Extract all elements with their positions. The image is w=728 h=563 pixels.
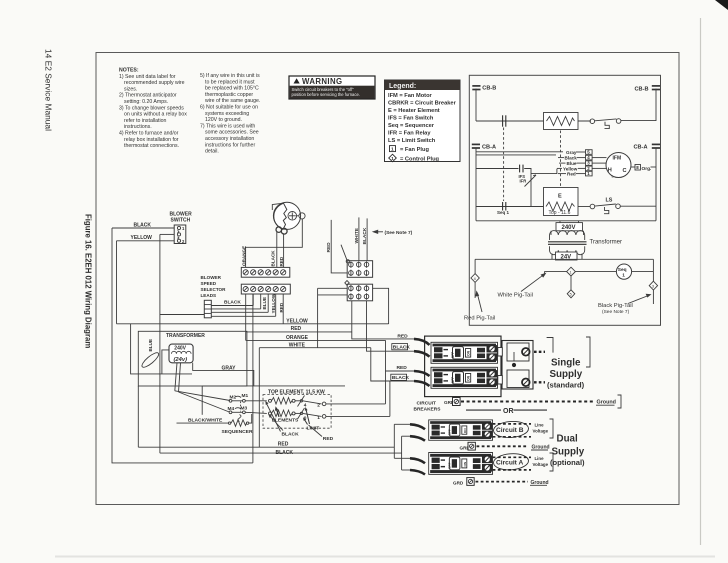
OR divider: [466, 409, 501, 411]
circuit breaker CBRKR 2: [431, 367, 498, 388]
wire2 gray feed: [476, 151, 563, 153]
svg-text:WARNING: WARNING: [302, 77, 342, 86]
svg-text:SPEED: SPEED: [201, 281, 217, 286]
svg-text:4: 4: [474, 277, 476, 281]
relay block upper: [347, 261, 372, 278]
svg-text:Top - 11.6: Top - 11.6: [549, 210, 571, 216]
svg-text:(24v): (24v): [174, 357, 188, 363]
legend box: [0, 0, 460, 163]
svg-text:RED: RED: [323, 436, 334, 442]
wire orange motor to strip: [246, 219, 303, 268]
legend control plug symbol: [389, 154, 397, 162]
wire vertical elem2: [389, 381, 391, 416]
dashed wire from capacitor down: [503, 128, 505, 202]
wire E to LS: [578, 206, 591, 208]
bracket single supply: [586, 337, 590, 367]
sequencer link dashed: [240, 402, 242, 412]
wire black bottom long: [160, 452, 402, 454]
selector lead connector: [204, 300, 211, 318]
svg-text:Blue: Blue: [567, 161, 577, 166]
svg-text:Org.: Org.: [642, 166, 652, 172]
svg-text:Ground: Ground: [597, 400, 616, 406]
svg-text:CIRCUIT: CIRCUIT: [417, 401, 437, 407]
wire 24V rail: [475, 258, 653, 260]
plug B and Org label: [635, 165, 651, 173]
wire orange drop from strip: [245, 294, 247, 341]
single supply side frame: [498, 341, 533, 390]
svg-text:Voltage: Voltage: [533, 462, 549, 467]
transformer secondary coil: [550, 246, 585, 254]
svg-text:(See Note 7): (See Note 7): [385, 230, 413, 236]
dashed line voltage A: [493, 456, 531, 458]
control plug diamond on lower block: [345, 281, 349, 286]
wire elem1 to limit contact: [295, 400, 300, 402]
svg-text:RED: RED: [278, 441, 289, 447]
strip drops to leads: [252, 294, 254, 306]
dual supply circuit breaker B: [429, 420, 493, 440]
wire black motor down: [276, 232, 278, 267]
svg-text:YELLOW: YELLOW: [131, 235, 153, 241]
fan plug marker on wire1 switch: [605, 122, 610, 129]
svg-text:BLACK: BLACK: [282, 432, 300, 438]
svg-text:NOTES: 1) See unit data label: NOTES: 1) See unit data label for recomm…: [0, 0, 188, 149]
svg-text:Black: Black: [565, 156, 578, 161]
svg-text:GRD: GRD: [453, 481, 464, 486]
svg-text:BREAKERS: BREAKERS: [414, 407, 442, 413]
svg-text:BLACK: BLACK: [393, 344, 411, 350]
circuit breaker CB-B left: [472, 85, 496, 91]
wire 24V secondary hot: [545, 272, 567, 275]
wire LS to right rail: [620, 205, 656, 207]
page edge scan line: [700, 18, 702, 545]
fan plug pin boxes 5..1: [586, 150, 593, 177]
terminal strip upper: [241, 267, 289, 277]
heater element E box: [544, 188, 579, 216]
svg-text:E: E: [558, 194, 562, 200]
svg-text:1: 1: [182, 226, 185, 231]
terminal strip lower: [241, 284, 290, 294]
svg-text:SELECTOR: SELECTOR: [201, 287, 227, 292]
faint bottom scan line: [55, 556, 715, 558]
wire to terminal 2: [303, 401, 322, 404]
svg-text:position before servicing the: position before servicing the furnace.: [292, 92, 360, 97]
corner scan artifact: [715, 0, 728, 10]
wire loop left of transformer: [131, 324, 192, 374]
control plug diamond 5: [567, 290, 575, 298]
svg-text:Circuit A: Circuit A: [496, 459, 523, 466]
svg-text:SEQUENCER: SEQUENCER: [222, 429, 253, 435]
wire stubs into 240V box: [559, 221, 561, 223]
svg-text:LS: LS: [606, 198, 613, 204]
transformer box: [138, 331, 247, 386]
wire yellow long: [117, 323, 389, 325]
circuit breaker CBRKR 1: [431, 342, 498, 363]
svg-text:Legend:: Legend:: [389, 83, 416, 90]
sequencer heater squiggle: [238, 415, 241, 422]
svg-text:M3: M3: [241, 405, 248, 411]
wire black to switch: [112, 227, 174, 229]
blower motor drawing: [272, 202, 305, 234]
wire black feed 2: [391, 374, 407, 380]
svg-text:Supply: Supply: [552, 447, 585, 458]
svg-text:(standard): (standard): [547, 381, 585, 390]
svg-text:IFR: IFR: [520, 179, 527, 184]
wire 24V lead 2: [179, 363, 181, 392]
blower switch box: [174, 225, 186, 244]
dashed stubs right of frame: [534, 351, 545, 353]
fan plug marker under LS: [604, 207, 609, 214]
svg-text:TOP ELEMENT, 11.5 KW: TOP ELEMENT, 11.5 KW: [268, 390, 325, 396]
svg-text:8: 8: [636, 165, 639, 170]
wire left pigtail drop: [474, 259, 476, 273]
svg-text:Seq 1: Seq 1: [497, 210, 510, 215]
wire right pigtail drop: [652, 259, 654, 281]
wire CB-B left down: [475, 89, 477, 122]
svg-text:1: 1: [391, 147, 394, 153]
wire red long: [246, 331, 352, 333]
wire feed diagonal M4: [179, 392, 230, 412]
svg-text:BLACK/WHITE: BLACK/WHITE: [188, 418, 223, 424]
wire to terminal 1: [303, 413, 322, 416]
svg-text:Line: Line: [535, 423, 545, 428]
wire yellow to switch: [117, 240, 175, 242]
wire lower block left to white drop: [318, 287, 348, 289]
svg-text:1: 1: [570, 271, 572, 275]
wire 24V lead 1: [175, 363, 177, 391]
svg-text:CB-B: CB-B: [482, 85, 496, 91]
capacitor IFS: [519, 165, 521, 173]
svg-text:IFM: IFM: [613, 156, 622, 162]
svg-text:White Pig-Tail: White Pig-Tail: [498, 293, 533, 299]
svg-text:RED: RED: [291, 326, 302, 332]
wire connector to switch vertical: [160, 314, 204, 316]
wire left vertical middle long: [159, 234, 161, 453]
wire resistor right up: [249, 414, 252, 423]
svg-text:2: 2: [317, 402, 320, 408]
wire yellow switch drop: [116, 241, 118, 324]
motor lead labels and fan plug pins: [563, 150, 578, 177]
svg-text:BLACK: BLACK: [271, 250, 276, 267]
svg-text:Line: Line: [535, 456, 545, 461]
dual supply circuit breaker A: [429, 453, 493, 475]
wire black feed 1: [392, 344, 408, 350]
svg-text:1: 1: [317, 415, 320, 421]
single supply enclosure: [425, 336, 501, 397]
wire gray: [193, 363, 254, 386]
wire red pigtail stub: [474, 282, 476, 298]
svg-text:ORANGE: ORANGE: [242, 246, 247, 266]
control plug diamond red pigtail: [471, 274, 479, 283]
dashed line voltage B: [493, 423, 531, 425]
selector lead wires: [211, 305, 253, 307]
circuit breaker CB-A right: [634, 144, 661, 150]
circuit breaker CB-A left: [472, 144, 496, 150]
wire black pigtail stub: [652, 290, 654, 304]
wire motor to plug B: [631, 166, 635, 168]
wire white left drop: [258, 348, 260, 448]
svg-text:3: 3: [587, 161, 590, 166]
svg-text:Red: Red: [567, 172, 576, 177]
label Circuit B with ellipse: [493, 420, 529, 438]
wire vertical orange to elem: [385, 340, 387, 404]
svg-text:RED: RED: [279, 256, 284, 266]
wires pins to motor: [592, 157, 606, 159]
switch on wire1: [590, 119, 621, 124]
schematic enclosure box: [469, 75, 660, 325]
wire sequencer feed box: [202, 385, 345, 387]
svg-text:BLACK: BLACK: [392, 375, 410, 381]
wire black/white: [177, 422, 229, 424]
control plug diamond white pigtail: [567, 267, 576, 276]
svg-text:CB-A: CB-A: [634, 144, 648, 150]
svg-text:(See Note 7): (See Note 7): [602, 309, 630, 315]
wire diamond to seq: [575, 271, 616, 273]
svg-text:4: 4: [587, 155, 590, 160]
control plug diamond black pigtail: [649, 281, 657, 290]
heater element 1: [269, 399, 272, 402]
svg-text:Black Pig-Tail: Black Pig-Tail: [598, 303, 633, 309]
wire blue to 240V box: [162, 350, 169, 374]
svg-text:C: C: [623, 168, 627, 174]
svg-text:LEADS: LEADS: [201, 293, 217, 298]
svg-text:YELLOW: YELLOW: [271, 293, 276, 313]
svg-text:Supply: Supply: [550, 369, 583, 380]
wire red row branch: [531, 169, 557, 174]
wire element out to breakers upper: [326, 403, 386, 405]
wire stubs 24V to rail: [551, 254, 553, 260]
wire middle terminal: [160, 233, 174, 235]
sequencer coil Seq 1 circle: [616, 264, 631, 279]
relay block lower: [347, 284, 372, 301]
svg-text:Figure 16. E2EH 012 Wiring Dia: Figure 16. E2EH 012 Wiring Diagram: [84, 214, 93, 348]
circuit breaker CB-B right: [635, 86, 661, 93]
wire white pigtail hang: [570, 276, 572, 290]
limit contact 1: [300, 400, 302, 402]
svg-text:Gray: Gray: [566, 150, 577, 155]
wire CB-A left rail down: [475, 148, 477, 221]
wire M1 to element1: [245, 400, 266, 402]
fan switch IFS blade: [525, 175, 537, 187]
svg-text:Circuit B: Circuit B: [496, 427, 524, 434]
dashed ground wire single: [461, 401, 593, 403]
svg-text:4: 4: [304, 402, 307, 408]
sequencer resistor: [228, 422, 230, 424]
wire white long: [259, 347, 371, 349]
wire loop lower block right to yellow: [373, 288, 389, 324]
wire seq to right drop: [632, 271, 654, 273]
svg-text:Seq: Seq: [618, 267, 627, 273]
wire top circuit (wire1): [476, 120, 591, 122]
svg-text:3: 3: [652, 285, 654, 289]
wire yellow start drop: [282, 294, 284, 324]
wire white loop vertical: [317, 288, 319, 347]
wire orange long: [246, 339, 386, 341]
svg-text:SWITCH: SWITCH: [171, 218, 191, 224]
label Circuit A with ellipse: [493, 453, 529, 471]
wire3 lower circuit: [476, 206, 544, 208]
svg-text:Dual: Dual: [557, 434, 579, 445]
heater element 2: [269, 412, 272, 415]
capacitor on wire1: [502, 115, 504, 126]
svg-text:Transformer: Transformer: [590, 240, 622, 246]
transformer 240V label: [556, 223, 583, 232]
transformer primary coil: [550, 231, 585, 240]
bracket small left: [547, 338, 553, 353]
limit switch LS: [590, 198, 620, 209]
dashed wire from element box down: [560, 131, 562, 188]
heater element box on wire1: [544, 113, 579, 130]
top element dashed box: [263, 395, 331, 429]
svg-text:TRANSFORMER: TRANSFORMER: [166, 333, 205, 339]
capacitor Seq 1: [502, 202, 504, 211]
svg-text:1: 1: [391, 156, 394, 161]
wire IFS branch: [476, 168, 519, 170]
relay blade upper block: [346, 260, 349, 263]
svg-text:BLOWER: BLOWER: [201, 275, 222, 280]
svg-text:14 E2 Service Manual: 14 E2 Service Manual: [44, 49, 54, 131]
wire left vertical black: [112, 228, 253, 463]
svg-text:BLUE: BLUE: [148, 339, 153, 352]
wire transformer left edge down: [137, 386, 139, 447]
wire CB-A right rail down: [655, 148, 657, 221]
svg-text:240V: 240V: [174, 346, 186, 352]
svg-text:= Control Plug: = Control Plug: [400, 157, 440, 163]
svg-text:OR: OR: [503, 408, 514, 415]
svg-text:BLACK: BLACK: [134, 222, 152, 228]
svg-text:Voltage: Voltage: [533, 429, 549, 434]
wire red motor down: [283, 233, 285, 267]
wire M3 to element2: [245, 412, 266, 413]
svg-text:Single: Single: [551, 358, 581, 369]
transformer core: [548, 241, 587, 243]
limit contact 2: [300, 412, 302, 414]
wire bottom rail upper circuit: [476, 220, 656, 222]
wire lower block bottom to red: [351, 301, 353, 332]
wire nut blue: [140, 351, 160, 370]
wire elem2 to limit contact: [295, 412, 300, 414]
wire long drop to bottom loop: [252, 294, 254, 463]
transformer 240V inner box: [169, 344, 193, 363]
svg-text:5: 5: [570, 293, 572, 297]
wire feed diagonal M2: [175, 391, 230, 401]
svg-text:= Fan Plug: = Fan Plug: [400, 147, 429, 153]
wire after IFS caps: [524, 169, 531, 207]
fan motor IFM: [606, 153, 631, 179]
wire feeds dual B: [393, 424, 395, 458]
wire2 ghost second line: [476, 154, 556, 156]
svg-text:CB-A: CB-A: [482, 144, 496, 150]
svg-text:BLACK: BLACK: [224, 300, 241, 306]
transformer 24V label: [556, 252, 578, 260]
outer border: [96, 53, 679, 505]
wire red bottom long: [138, 446, 394, 448]
svg-text:BLUE: BLUE: [262, 297, 267, 310]
svg-text:(optional): (optional): [550, 458, 585, 467]
svg-text:Red Pig-Tail: Red Pig-Tail: [464, 316, 495, 322]
warning box: [289, 76, 375, 99]
wire CB-B right down: [655, 89, 657, 122]
svg-text:1: 1: [622, 273, 625, 279]
svg-text:M1: M1: [242, 393, 249, 399]
svg-text:RED: RED: [397, 365, 408, 371]
wire org to right rail: [651, 166, 657, 168]
svg-text:CB-B: CB-B: [635, 86, 649, 92]
svg-text:BLACK: BLACK: [276, 450, 294, 456]
wire feeds dual A: [394, 457, 410, 459]
legend fan plug symbol: [390, 146, 396, 152]
svg-text:1: 1: [587, 171, 590, 176]
see note 7 arrow: [372, 230, 378, 234]
